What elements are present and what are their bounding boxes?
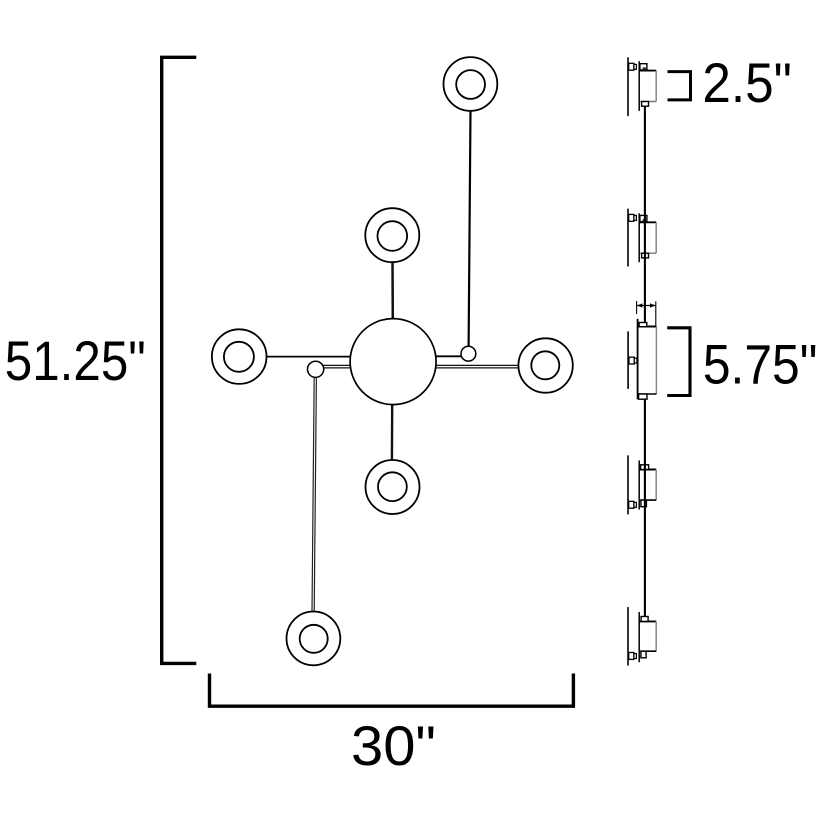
dimension bracket 5.75 (F3 body height) <box>667 328 690 396</box>
arm lower double tube (node A through hub to lamp L4) <box>316 365 545 367</box>
lamp L2 (top middle) <box>365 208 419 262</box>
lamp L1 (top right) <box>444 57 498 111</box>
dimension line with arrows (F3 width) <box>637 303 656 307</box>
svg-text:5.75": 5.75" <box>703 334 816 396</box>
svg-text:51.25": 51.25" <box>5 330 146 392</box>
rod main lower segment (F3 to F5, over F4) <box>644 399 646 617</box>
side view fixture F3 (large middle) <box>628 319 656 400</box>
side view fixture F1 (top) <box>628 57 656 116</box>
side view fixture F5 (bottom) <box>628 607 656 665</box>
side view fixture F4 <box>628 455 656 514</box>
connector cap on rod at F3 bottom <box>639 394 647 399</box>
rod R2 (lamp L2 to hub) <box>391 261 394 320</box>
node B (small drop swivel right) <box>461 346 476 361</box>
dimension bracket 51.25 (left height bracket) <box>162 57 197 663</box>
connector cap on rod at F3 top <box>639 323 647 327</box>
arm upper right (hub to drop node B) <box>393 355 468 357</box>
arm left (hub to lamp L3) <box>240 356 393 358</box>
dimension bracket 2.5 (F1 body height) <box>668 72 691 100</box>
lamp L4 (right) <box>518 338 572 392</box>
dimension bracket 30 (bottom width bracket) <box>210 674 574 707</box>
rod R1 (lamp L1 to node B) <box>469 110 471 347</box>
side view fixture F2 <box>628 209 656 267</box>
rod main upper segment (F1 to F3, over F2) <box>644 106 646 323</box>
svg-text:2.5": 2.5" <box>702 52 792 114</box>
rod R4 double tube (node A to lamp L6) <box>312 376 316 613</box>
hub (central canopy circle) <box>350 319 436 405</box>
dimension extension lines (width of F3 body) <box>637 301 656 327</box>
lamp L5 (bottom middle) <box>366 460 420 514</box>
lamp L3 (left) <box>212 329 267 384</box>
node A (small drop swivel left) <box>308 361 324 377</box>
lamp L6 (bottom left) <box>287 612 341 666</box>
svg-text:30": 30" <box>351 715 436 777</box>
rod R3 (hub to lamp L5) <box>391 403 394 461</box>
